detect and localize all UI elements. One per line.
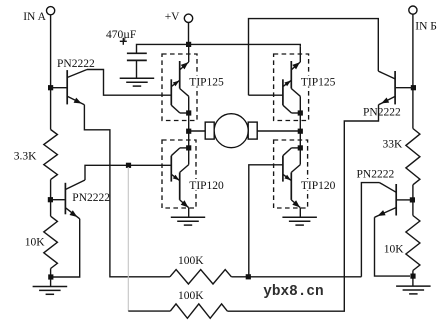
resistor R3 33K [406, 129, 420, 185]
transistor Q3 PN2222 (upper right) [396, 87, 414, 89]
node B (Q2 base junction) [48, 197, 53, 202]
wire +V rail left to capacitor C1 [137, 44, 189, 53]
wire IN A down to 3.3K resistor [50, 15, 52, 130]
node L (IN B / Q3 base junction) [411, 85, 416, 90]
svg-text:IN A: IN A [23, 11, 46, 23]
svg-text:PN2222: PN2222 [363, 107, 401, 119]
wire Q4 emitter to ground node N [375, 217, 411, 276]
transistor Q2 PN2222 (lower left) [50, 199, 64, 201]
transistor Q4 PN2222 (lower right) [397, 199, 413, 201]
svg-text:PN2222: PN2222 [357, 168, 395, 180]
resistor R6 100K (lower) [170, 304, 227, 318]
svg-text:100K: 100K [178, 255, 204, 267]
wire +V rail right to U2 TIP125 [189, 44, 301, 46]
darlington U4 TIP120 (right) dashed package box [274, 140, 308, 208]
wire R2 to node D [50, 269, 52, 280]
terminal IN A [47, 7, 55, 15]
faint wire node C down to 100K R6 [127, 167, 129, 311]
resistor R1 3.3K [44, 130, 58, 180]
wire Q3 collector diagonal [378, 71, 395, 79]
ground symbol under C1 [120, 77, 155, 79]
wire Q1 collector to U1 TIP125 base [87, 70, 171, 96]
wire Q2 collector to U3 TIP120 base [85, 165, 172, 180]
svg-text:TIP120: TIP120 [189, 180, 224, 192]
svg-text:PN2222: PN2222 [72, 192, 110, 204]
svg-text:TIP125: TIP125 [189, 76, 224, 88]
ground symbol right [412, 279, 414, 286]
wire motor left lead [189, 130, 206, 132]
wire R1 to node B [50, 180, 52, 217]
darlington U4 TIP120 (right) internal wires and transistors [299, 150, 301, 164]
node J (motor right tap) [298, 129, 303, 134]
ground symbol under darlington U4 TIP120 (right) [282, 216, 317, 218]
darlington U1 TIP125 (left) internal wires and transistors [188, 47, 190, 62]
terminal +V [184, 14, 192, 22]
svg-text:470µF: 470µF [106, 29, 136, 41]
darlington U2 TIP125 (right) dashed package box [274, 54, 309, 121]
node H (U3 collector) [186, 145, 191, 150]
svg-text:33K: 33K [383, 138, 404, 150]
svg-text:TIP125: TIP125 [301, 76, 336, 88]
node E (+V rail junction) [186, 42, 191, 47]
node D (ground junction left) [48, 274, 53, 279]
wire right bridge column [299, 113, 301, 150]
terminal IN B [409, 6, 417, 14]
node I (U2 collector) [298, 110, 303, 115]
plus polarity mark of C1 [120, 40, 127, 42]
svg-text:100K: 100K [178, 290, 204, 302]
node F (U1 collector) [186, 110, 191, 115]
wire Q4 collector to 100K R5 trunk [361, 183, 379, 277]
darlington U4 TIP120 (right) value label [300, 179, 335, 190]
node C on TIP120 base line [126, 163, 131, 168]
svg-text:ybx8.cn: ybx8.cn [263, 284, 323, 300]
darlington U2 TIP125 (right) value label [300, 76, 335, 87]
darlington U3 TIP120 (left) value label [188, 179, 223, 190]
wire Q1 emitter trunk to 100K R5 [84, 105, 169, 277]
wire left bridge column [188, 113, 190, 150]
wire R5 to node O [231, 276, 361, 278]
node A (IN A / Q1 base junction) [48, 85, 53, 90]
node K (U4 collector) [298, 145, 303, 150]
ground symbol under darlington U3 TIP120 (left) [171, 216, 205, 218]
capacitor C1 470uF [127, 52, 147, 54]
wire R3 to node M [412, 185, 414, 216]
node M (Q4 base junction) [410, 197, 415, 202]
resistor R2 10K (left) [44, 216, 58, 268]
node N (ground junction right) [410, 274, 415, 279]
svg-text:IN Б: IN Б [415, 20, 437, 32]
wire R6 left lead [128, 310, 170, 312]
wire R4 to node N [412, 271, 414, 280]
wire node O up to U4 TIP120 base [249, 165, 283, 277]
wire Q2 emitter to ground node D [53, 219, 80, 277]
svg-text:TIP120: TIP120 [301, 180, 336, 192]
resistor R5 100K (upper) [170, 270, 232, 284]
svg-text:+V: +V [165, 11, 180, 23]
wire crossover: top rail from U2 base trunk [249, 19, 379, 96]
wire +V down [188, 23, 190, 45]
motor M1 [205, 122, 214, 139]
wire IN B down to 33K [412, 14, 414, 128]
ground symbol left [50, 280, 52, 287]
darlington U3 TIP120 (left) internal wires and transistors [188, 150, 190, 164]
wire motor right lead [257, 130, 300, 132]
svg-text:10K: 10K [25, 237, 46, 249]
svg-text:PN2222: PN2222 [57, 58, 95, 70]
svg-text:3.3K: 3.3K [14, 151, 37, 163]
darlington U1 TIP125 (left) dashed package box [162, 54, 197, 121]
transistor Q1 PN2222 (upper left) [51, 87, 67, 89]
wire U2 TIP125 base [249, 94, 284, 96]
wire Q3 emitter trunk down to 100K R6 [227, 105, 378, 311]
node G (motor left tap) [186, 129, 191, 134]
darlington U1 TIP125 (left) value label [188, 76, 223, 87]
darlington U2 TIP125 (right) internal wires and transistors [299, 47, 301, 62]
resistor R4 10K (right) [406, 216, 420, 271]
darlington U3 TIP120 (left) dashed package box [162, 140, 196, 208]
node O (100K / crossover junction) [246, 274, 251, 279]
svg-text:10K: 10K [384, 243, 405, 255]
